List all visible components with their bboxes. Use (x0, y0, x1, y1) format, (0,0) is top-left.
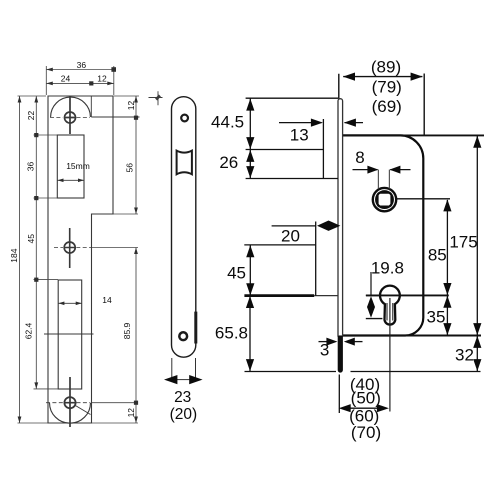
svg-text:20: 20 (281, 227, 300, 246)
dim 36 line (46, 69, 114, 71)
spindle follower (373, 188, 396, 211)
left drawing tick marks (18, 67, 138, 423)
deadbolt box (58, 280, 81, 389)
svg-text:45: 45 (26, 234, 36, 244)
diamond 19.8 (367, 296, 375, 317)
svg-text:36: 36 (77, 60, 87, 70)
dim 24/12 mid square (89, 81, 93, 85)
bottom arc (50, 403, 91, 423)
deadbolt width dim (58, 302, 81, 304)
svg-text:(50): (50) (351, 388, 381, 407)
svg-text:175: 175 (449, 233, 477, 252)
svg-text:44.5: 44.5 (211, 113, 244, 132)
dim 23 arrows (172, 358, 196, 380)
bottom screw hole (179, 332, 187, 340)
dim 85 (446, 200, 448, 295)
spindle axis extension (397, 198, 451, 200)
dim 44.5 / 26 (246, 98, 339, 178)
svg-text:22: 22 (26, 111, 36, 121)
dim 13 (279, 122, 363, 124)
left chain extensions (34, 135, 59, 389)
latch width arrows (58, 179, 85, 183)
dim 35 (446, 295, 448, 335)
dim 32 (476, 336, 478, 372)
dim 3 faceplate thickness (319, 341, 363, 343)
svg-text:85.9: 85.9 (122, 322, 132, 339)
dim 184 extension lines (18, 96, 48, 423)
dim 45 (249, 245, 251, 296)
backset dim (339, 375, 387, 414)
step line y117 from arch to right dim (91, 96, 139, 117)
svg-text:24: 24 (61, 73, 71, 83)
dim 36 end square (111, 67, 116, 72)
dim 184 line (19, 96, 21, 423)
latch cutout (177, 151, 192, 175)
svg-text:65.8: 65.8 (215, 323, 248, 342)
top screw hole (65, 112, 76, 123)
svg-text:85: 85 (428, 246, 447, 265)
svg-text:184: 184 (9, 248, 19, 262)
faceplate rounded outline (172, 97, 196, 358)
svg-text:23: 23 (174, 389, 191, 406)
top screw hole (181, 115, 188, 122)
svg-text:15mm: 15mm (66, 161, 90, 171)
lock body outline (343, 135, 424, 335)
svg-text:12: 12 (126, 408, 136, 418)
left chain dim line (35, 96, 37, 389)
ticks left chain (34, 96, 38, 389)
deadbolt width arrows (58, 302, 81, 306)
svg-text:(20): (20) (170, 406, 198, 423)
svg-text:12: 12 (126, 101, 136, 111)
dim 8 (378, 170, 389, 189)
right dim line col (135, 96, 137, 423)
svg-text:26: 26 (219, 153, 238, 172)
cylinder axis horizontal line (244, 294, 448, 297)
cylinder axis vertical line (389, 298, 391, 412)
right col junction squares (134, 116, 138, 120)
svg-text:19.8: 19.8 (371, 258, 404, 277)
registration cross mark (149, 91, 163, 105)
diagonal fold line (76, 406, 91, 415)
ticks dim184 (18, 96, 22, 423)
latch box width dim (57, 179, 84, 181)
middle screw hole (64, 242, 75, 253)
svg-text:12: 12 (97, 73, 107, 83)
faceplate strip lower solid part (338, 336, 343, 373)
right extensions (92, 96, 140, 423)
faceplate strip side view (338, 99, 343, 336)
latch box (57, 135, 84, 198)
svg-text:(79): (79) (372, 78, 402, 97)
dim 24/12 line (46, 82, 114, 84)
bottom screw hole (64, 397, 75, 408)
euro cylinder profile (380, 286, 400, 325)
svg-text:56: 56 (125, 163, 135, 173)
svg-text:(89): (89) (371, 58, 401, 77)
body bottom edge extension to 32 dim (343, 335, 481, 337)
svg-text:13: 13 (290, 125, 309, 144)
dim 65.8 (249, 296, 251, 372)
svg-text:8: 8 (355, 148, 364, 167)
left chain junction squares (34, 133, 38, 137)
dim 19.8 (366, 272, 383, 319)
body top edge extension to 175 dim (343, 134, 484, 136)
thick right edge segment (194, 312, 197, 344)
left drawing labels (9, 60, 136, 418)
svg-text:(70): (70) (351, 423, 381, 442)
svg-text:3: 3 (320, 341, 329, 360)
extension y371.5 (245, 371, 481, 373)
dim 20 (244, 222, 315, 296)
svg-text:35: 35 (427, 307, 446, 326)
svg-text:(69): (69) (372, 97, 402, 116)
left drawing dimension lines (18, 66, 140, 423)
diamond 20 (317, 221, 340, 231)
top arch lip (51, 97, 91, 117)
svg-text:62.4: 62.4 (24, 322, 34, 339)
svg-text:32: 32 (455, 346, 474, 365)
strike plate outline (48, 96, 113, 423)
svg-text:45: 45 (227, 264, 246, 283)
ticks dim36 (46, 68, 53, 72)
svg-text:14: 14 (102, 295, 112, 305)
dim 175 (476, 135, 478, 335)
ticks right col (134, 96, 138, 423)
latch front vertical (322, 119, 324, 179)
ticks dim24/12 (46, 82, 114, 86)
svg-text:36: 36 (26, 162, 36, 172)
dim 36 extension lines (46, 66, 114, 95)
dim (89) (339, 74, 424, 136)
mid line across deadbolt box (44, 333, 94, 335)
